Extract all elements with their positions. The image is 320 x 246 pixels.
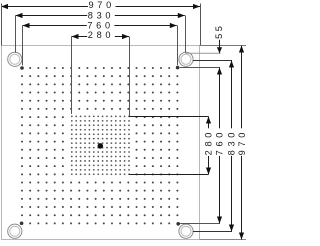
label 830 top bbox=[87, 10, 115, 20]
dim 830 right line bbox=[229, 61, 234, 232]
panel outline bbox=[2, 46, 200, 240]
dim 760 right line bbox=[217, 68, 222, 224]
dim 280 top line bbox=[72, 34, 130, 39]
dim 830 top extension lines bbox=[16, 16, 186, 53]
dim 55 line bbox=[217, 40, 222, 54]
nozzle dot leader top bbox=[180, 67, 220, 69]
label 760 top bbox=[87, 20, 115, 30]
central nozzle dot bbox=[98, 143, 104, 149]
svg-text:280: 280 bbox=[204, 129, 214, 155]
dim 970 right line bbox=[239, 46, 244, 240]
dense central spray zone bbox=[71, 116, 130, 176]
svg-text:830: 830 bbox=[88, 10, 114, 20]
dim 760 top extension lines bbox=[23, 26, 178, 66]
svg-text:970: 970 bbox=[237, 129, 247, 155]
label 280 right bbox=[204, 128, 214, 156]
dim 760 top line bbox=[23, 23, 177, 28]
label 830 right bbox=[227, 128, 237, 156]
svg-text:55: 55 bbox=[214, 24, 224, 39]
nozzle dot leader bottom bbox=[180, 223, 220, 225]
label 970 right bbox=[237, 128, 247, 156]
spray nozzle dot grid bbox=[21, 67, 178, 224]
label 760 right bbox=[215, 128, 225, 156]
dim 970 top extension lines bbox=[2, 4, 201, 46]
label 280 top bbox=[87, 30, 115, 40]
svg-text:280: 280 bbox=[88, 30, 114, 40]
svg-text:970: 970 bbox=[88, 0, 114, 10]
dense zone top leader bbox=[129, 116, 209, 118]
top edge extension leader bbox=[200, 45, 247, 47]
corner nozzle dots bbox=[20, 66, 180, 226]
dim 830 top line bbox=[16, 13, 185, 18]
dim 280 right line bbox=[206, 117, 211, 175]
svg-text:760: 760 bbox=[215, 129, 225, 155]
hole center leader top bbox=[193, 60, 232, 62]
label 970 top bbox=[88, 0, 116, 10]
dense zone bottom leader bbox=[129, 174, 209, 176]
mounting holes bbox=[8, 52, 22, 66]
hole top tangent leader bbox=[186, 52, 221, 54]
svg-text:830: 830 bbox=[227, 129, 237, 155]
bottom edge extension leader bbox=[200, 239, 247, 241]
dim 280 top extension lines bbox=[72, 37, 130, 117]
dim 970 top line bbox=[1, 4, 200, 9]
hole center leader bottom bbox=[193, 231, 232, 233]
svg-text:760: 760 bbox=[87, 20, 113, 30]
label 55 bbox=[214, 23, 224, 40]
